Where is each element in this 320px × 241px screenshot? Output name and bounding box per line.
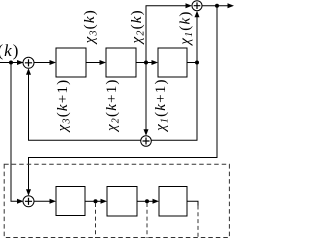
node chi1 tap dot	[195, 61, 199, 65]
wire dashed down from bottom tap dot 1	[95, 203, 97, 238]
svg-text:(k): (k)	[0, 41, 19, 60]
wire chi2 tap vertical down to sum S3	[145, 63, 147, 131]
wire box B5 to box B6	[137, 200, 153, 202]
summing junction S1	[23, 57, 34, 68]
arrow output right edge	[228, 3, 235, 8]
wire chi1 tap up into sum S2	[196, 16, 198, 63]
delay box B2	[106, 48, 136, 77]
arrow into sum S3 from top	[144, 129, 149, 136]
delay box B3	[158, 48, 187, 77]
delay box B5	[107, 187, 137, 217]
wire sum S2 output to right edge	[202, 5, 228, 7]
summing junction S3	[141, 136, 152, 147]
delay box B6	[159, 187, 187, 217]
node input tap dot	[9, 61, 13, 65]
arrow into box B3	[152, 60, 159, 65]
wire input tap down left column x=11	[11, 63, 18, 202]
wire output feedback down x=217 and across y=157.5	[29, 6, 218, 190]
wire dashed down from bottom tap dot 2	[146, 203, 148, 238]
node bottom tap dot 2	[145, 199, 149, 203]
svg-text:χ2(k+1): χ2(k+1)	[104, 78, 122, 133]
dashed enclosure box	[4, 164, 229, 237]
svg-text:χ1(k): χ1(k)	[177, 10, 195, 46]
wire box B4 to box B5	[85, 200, 101, 202]
summing junction S4	[23, 196, 34, 207]
arrow into sum S1 from left	[17, 60, 24, 65]
wire box B2 to box B3 (signal chi2(k))	[136, 62, 152, 64]
arrow into sum S2 from left	[186, 3, 193, 8]
arrow into box B4	[50, 199, 57, 204]
arrow into sum S1 from below	[26, 68, 31, 75]
node chi2 tap dot	[144, 61, 148, 65]
arrow into sum S2 from below	[195, 11, 200, 18]
delay box B1	[56, 48, 86, 77]
svg-text:χ1(k+1): χ1(k+1)	[153, 78, 171, 133]
summing junction S2	[192, 1, 202, 11]
node output tap dot	[215, 4, 219, 8]
arrow into box B1	[50, 60, 57, 65]
wire sum S1 to box B1	[34, 62, 51, 64]
svg-text:χ2(k): χ2(k)	[129, 9, 147, 45]
arrow into box B6	[153, 199, 160, 204]
wire dashed continuation down from box B6 output	[197, 206, 199, 239]
arrow into sum S4 from top	[26, 189, 31, 196]
wire box B6 output right then down (solid part)	[187, 201, 198, 205]
delay box B4	[56, 187, 85, 216]
wire sum S4 output to box B4	[34, 200, 51, 202]
arrow into box B2	[100, 60, 107, 65]
arrow into box B5	[101, 199, 108, 204]
wire chi2 tap vertical up and across to sum S2	[146, 6, 186, 63]
wire chi1 tap down to feedback line	[151, 63, 197, 141]
wire feedback from sum S3 left to column x=28.5	[29, 75, 142, 141]
wire input u(k) horizontal into sum S1	[0, 62, 23, 64]
wire box B3 output to chi1 tap	[187, 62, 197, 64]
svg-text:χ3(k+1): χ3(k+1)	[55, 79, 73, 134]
arrow into sum S4 from left	[17, 199, 24, 204]
node bottom tap dot 1	[94, 199, 98, 203]
svg-text:χ3(k): χ3(k)	[82, 9, 100, 45]
wire box B1 to box B2 (signal chi3(k))	[86, 62, 100, 64]
